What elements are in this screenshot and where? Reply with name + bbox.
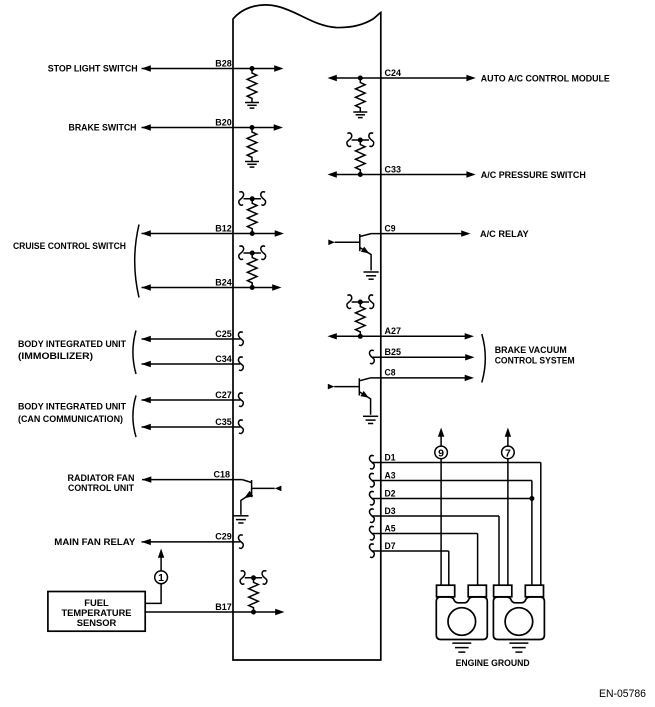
- resistor R2: [247, 128, 257, 162]
- wire C29: [142, 539, 241, 545]
- hook at D3: [370, 509, 375, 522]
- svg-text:C8: C8: [385, 368, 396, 378]
- power hook symbol above B17: [240, 571, 267, 584]
- svg-text:A/C RELAY: A/C RELAY: [480, 228, 529, 239]
- wire C9: [371, 230, 470, 236]
- wire C35: [142, 424, 241, 430]
- node on B20: [250, 125, 255, 130]
- wire B20: [142, 124, 284, 130]
- svg-text:SENSOR: SENSOR: [77, 617, 117, 628]
- svg-text:C27: C27: [215, 390, 232, 400]
- node A3-D2 junction: [529, 496, 534, 501]
- wire C8: [371, 375, 474, 381]
- node on B12: [250, 231, 255, 236]
- wire B12: [142, 230, 285, 236]
- svg-text:A27: A27: [385, 326, 402, 336]
- svg-text:B28: B28: [215, 58, 232, 68]
- svg-text:CONTROL UNIT: CONTROL UNIT: [68, 482, 134, 493]
- wire C27: [142, 397, 241, 403]
- ground clamp 2 body: [493, 597, 544, 640]
- svg-text:BRAKE SWITCH: BRAKE SWITCH: [69, 122, 137, 133]
- svg-text:ENGINE GROUND: ENGINE GROUND: [456, 657, 530, 668]
- svg-text:B12: B12: [215, 223, 232, 233]
- ground clamp 1 terminal B: [468, 585, 486, 597]
- ground symbol clamp 1: [452, 643, 471, 652]
- label RADIATOR FAN CONTROL UNIT: [68, 472, 135, 493]
- label FUEL TEMPERATURE SENSOR: [62, 597, 132, 628]
- svg-text:C25: C25: [215, 329, 232, 339]
- svg-text:C33: C33: [385, 164, 402, 174]
- hook at B25: [370, 350, 375, 363]
- svg-text:B20: B20: [215, 117, 232, 127]
- wire D1: [372, 463, 541, 586]
- svg-text:(IMMOBILIZER): (IMMOBILIZER): [18, 350, 93, 361]
- wire A27: [328, 333, 475, 339]
- hook at A3: [370, 474, 375, 487]
- hook at C29: [239, 535, 244, 548]
- hook at C35: [239, 420, 244, 433]
- hook at C27: [239, 393, 244, 406]
- wire C25: [142, 336, 241, 342]
- brace brake vacuum control system: [482, 334, 486, 383]
- svg-text:C34: C34: [215, 354, 232, 364]
- svg-text:A5: A5: [385, 523, 396, 533]
- resistor R3: [247, 199, 257, 233]
- wire C24: [328, 75, 476, 81]
- svg-text:BODY INTEGRATED UNIT: BODY INTEGRATED UNIT: [18, 338, 126, 349]
- ground clamp 1 body: [436, 597, 487, 640]
- svg-text:9: 9: [438, 447, 444, 459]
- hook at D1: [370, 456, 375, 469]
- fuel temperature sensor box: [48, 592, 145, 632]
- wire node 7 to ground terminal: [507, 459, 509, 586]
- svg-text:EN-05786: EN-05786: [599, 688, 646, 700]
- ground below Q1: [364, 272, 379, 279]
- wire B25: [372, 354, 475, 360]
- svg-text:CONTROL SYSTEM: CONTROL SYSTEM: [495, 354, 575, 365]
- svg-text:C35: C35: [215, 417, 232, 427]
- svg-text:D1: D1: [385, 452, 396, 462]
- ground clamp 1 bolt hole: [448, 608, 476, 636]
- ground below Q3: [233, 516, 248, 523]
- resistor R6: [356, 78, 366, 112]
- wire B24: [142, 284, 282, 290]
- svg-text:STOP LIGHT SWITCH: STOP LIGHT SWITCH: [48, 63, 138, 74]
- svg-text:B17: B17: [215, 602, 232, 612]
- resistor R8: [356, 302, 366, 336]
- svg-text:B25: B25: [385, 347, 402, 357]
- circled 1: [155, 571, 168, 584]
- svg-text:B24: B24: [215, 277, 232, 287]
- brace body integrated unit immobilizer: [133, 331, 136, 375]
- power hook symbol above C33: [347, 133, 374, 146]
- resistor R1: [247, 69, 257, 103]
- wire C34: [142, 361, 241, 367]
- ground below R2: [245, 162, 259, 168]
- transistor Q3: [241, 480, 282, 515]
- ECU box outline: [233, 5, 381, 660]
- svg-text:AUTO A/C CONTROL MODULE: AUTO A/C CONTROL MODULE: [481, 72, 610, 83]
- wire D3: [372, 516, 500, 585]
- svg-text:(CAN COMMUNICATION): (CAN COMMUNICATION): [18, 413, 123, 424]
- svg-text:C29: C29: [215, 532, 232, 542]
- svg-text:D7: D7: [385, 541, 396, 551]
- hook at A5: [370, 527, 375, 540]
- wire D7: [372, 551, 449, 585]
- wire sensor to node 1: [145, 584, 161, 604]
- node on C33: [358, 172, 363, 177]
- wire A5: [372, 534, 478, 586]
- power hook symbol above A27: [347, 295, 374, 308]
- svg-text:D2: D2: [385, 488, 396, 498]
- hook at C34: [239, 357, 244, 370]
- resistor R4: [247, 253, 257, 287]
- ground clamp 1 terminal A: [437, 585, 455, 597]
- transistor Q1: [328, 234, 371, 271]
- power hook symbol above B12: [239, 192, 266, 205]
- wire node 9 to ground terminal: [440, 459, 442, 586]
- resistor R5: [249, 578, 259, 612]
- svg-text:MAIN FAN RELAY: MAIN FAN RELAY: [54, 536, 136, 547]
- wire C18: [142, 476, 242, 482]
- wire B28: [142, 65, 284, 71]
- wire A3: [372, 481, 532, 586]
- node on B28: [250, 66, 255, 71]
- svg-text:A/C PRESSURE SWITCH: A/C PRESSURE SWITCH: [481, 169, 586, 180]
- node on C24: [358, 76, 363, 81]
- node on B24: [250, 285, 255, 290]
- hook at C25: [239, 332, 244, 345]
- svg-text:D3: D3: [385, 506, 396, 516]
- svg-text:C18: C18: [214, 469, 231, 479]
- node on A27: [358, 334, 363, 339]
- arrow above node 1: [158, 549, 164, 571]
- circled 7: [502, 446, 515, 459]
- brace body integrated unit can: [133, 396, 136, 438]
- svg-text:A3: A3: [385, 470, 396, 480]
- ground clamp 2 terminal A: [494, 585, 512, 597]
- ground symbol clamp 2: [509, 643, 528, 652]
- brace cruise control switch: [135, 225, 139, 298]
- ground below Q2: [363, 416, 378, 423]
- wire B17: [145, 609, 284, 615]
- svg-text:CRUISE CONTROL SWITCH: CRUISE CONTROL SWITCH: [13, 240, 126, 251]
- arrow above node 7: [505, 428, 511, 447]
- power hook symbol above B24: [239, 246, 266, 259]
- svg-text:7: 7: [505, 447, 511, 459]
- svg-text:1: 1: [158, 572, 164, 584]
- ground below R6: [353, 112, 367, 118]
- resistor R7: [356, 140, 366, 174]
- circled 9: [435, 446, 448, 459]
- hook at D7: [370, 544, 375, 557]
- hook at D2: [370, 492, 375, 505]
- node on B17: [251, 610, 256, 615]
- svg-text:BODY INTEGRATED UNIT: BODY INTEGRATED UNIT: [18, 401, 126, 412]
- ground below R1: [245, 103, 259, 109]
- ground clamp 2 bolt hole: [505, 608, 533, 636]
- svg-text:C9: C9: [385, 223, 396, 233]
- svg-text:C24: C24: [385, 68, 402, 78]
- arrow above node 9: [438, 428, 444, 447]
- ground clamp 2 terminal B: [525, 585, 543, 597]
- wire C33: [328, 171, 476, 177]
- wire D2: [372, 498, 532, 500]
- transistor Q2: [328, 378, 371, 415]
